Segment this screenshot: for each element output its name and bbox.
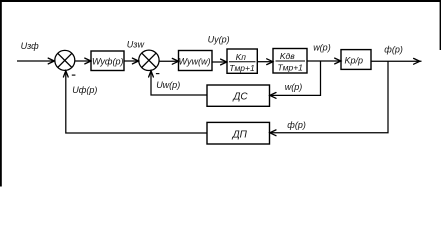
- svg-text:Kдв: Kдв: [280, 51, 295, 61]
- svg-text:Kп: Kп: [236, 52, 247, 62]
- svg-text:ДП: ДП: [232, 129, 248, 140]
- svg-text:Tмр+1: Tмр+1: [277, 63, 303, 73]
- svg-text:Uу(p): Uу(p): [208, 35, 230, 45]
- svg-text:Uзф: Uзф: [21, 41, 40, 51]
- svg-text:Uw(p): Uw(p): [156, 80, 180, 90]
- svg-text:w(p): w(p): [313, 42, 331, 52]
- svg-text:Uф(p): Uф(p): [72, 85, 97, 95]
- svg-text:Tмр+1: Tмр+1: [229, 63, 255, 73]
- svg-text:Uзw: Uзw: [127, 39, 145, 49]
- svg-text:Wуф(p): Wуф(p): [92, 56, 124, 66]
- svg-text:ф(p): ф(p): [384, 45, 403, 55]
- svg-text:Kр/p: Kр/p: [345, 55, 364, 65]
- svg-text:ДС: ДС: [232, 91, 248, 102]
- svg-text:w(p): w(p): [285, 82, 303, 92]
- svg-text:ф(p): ф(p): [287, 120, 306, 130]
- svg-text:Wуw(w): Wуw(w): [179, 56, 211, 66]
